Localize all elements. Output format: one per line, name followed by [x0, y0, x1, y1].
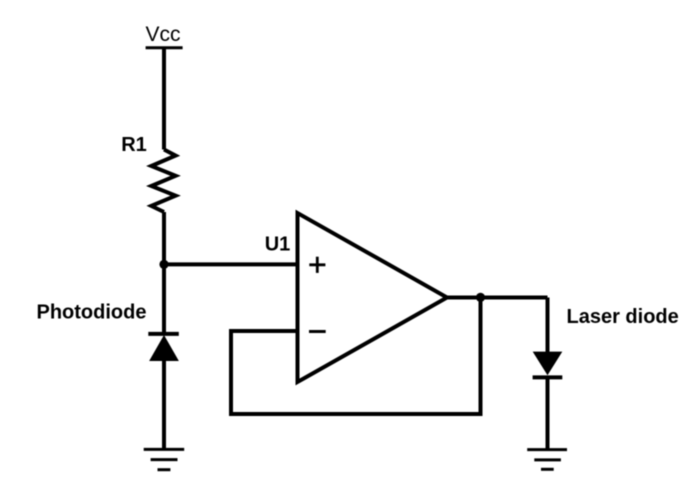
- wire node A to U1 noninverting input: [164, 262, 298, 266]
- pin + (noninverting input marker): [309, 257, 325, 273]
- svg-text:Vcc: Vcc: [146, 23, 181, 46]
- svg-text:U1: U1: [265, 233, 291, 255]
- op-amp U1 (triangle): [298, 213, 448, 382]
- power symbol Vcc (T-bar): [146, 46, 183, 49]
- resistor R1 (zigzag): [151, 150, 175, 213]
- ground (right): [527, 450, 567, 470]
- laser diode (filled triangle pointing down + cathode bar): [533, 352, 563, 377]
- node A (junction dot): [159, 260, 168, 269]
- wire laser diode to ground (right): [546, 377, 550, 449]
- pin − (inverting input marker): [309, 330, 326, 333]
- svg-text:Photodiode: Photodiode: [37, 301, 147, 323]
- wire U1 output to laser diode branch: [447, 296, 548, 300]
- wire Vcc bar to resistor R1: [162, 48, 166, 150]
- svg-text:R1: R1: [121, 134, 147, 156]
- wire R1 to photodiode (through node A): [162, 212, 166, 334]
- ground (left): [144, 449, 185, 469]
- wire laser diode branch down: [546, 298, 550, 353]
- wire feedback loop (output node B to U1 inverting input): [231, 297, 481, 414]
- svg-text:Laser diode: Laser diode: [567, 306, 679, 328]
- photodiode (cathode bar + filled triangle pointing up): [148, 334, 179, 361]
- wire photodiode to ground (left): [162, 361, 166, 450]
- node B (output junction dot): [476, 293, 485, 302]
